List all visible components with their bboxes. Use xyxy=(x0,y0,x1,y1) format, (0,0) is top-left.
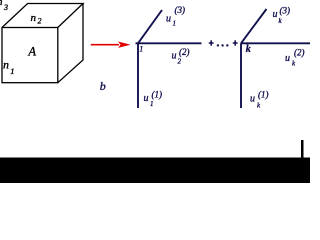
cube top face edges xyxy=(2,4,83,28)
svg-text:(2): (2) xyxy=(294,48,305,58)
svg-text:2: 2 xyxy=(38,17,42,26)
svg-text:n: n xyxy=(31,12,37,24)
wire: left diagonal (port 3) xyxy=(138,10,162,43)
label u1(2) xyxy=(172,47,190,66)
svg-text:A: A xyxy=(27,45,36,59)
svg-text:u: u xyxy=(250,94,255,105)
svg-text:n: n xyxy=(3,58,9,72)
cube right face edges xyxy=(58,4,83,83)
svg-text:u: u xyxy=(166,14,171,25)
cube front face xyxy=(2,28,58,83)
label uk(3) xyxy=(273,6,291,26)
black vertical line bottom-right xyxy=(301,140,304,158)
svg-text:(1): (1) xyxy=(258,90,269,100)
wire: right vertical (port 1) xyxy=(240,43,242,108)
label u1(1) xyxy=(144,90,163,109)
svg-text:b: b xyxy=(100,79,106,93)
svg-text:u: u xyxy=(172,51,177,62)
black bottom strip xyxy=(0,158,310,184)
svg-text:k: k xyxy=(246,44,251,55)
svg-text:(2): (2) xyxy=(179,47,190,57)
svg-text:(3): (3) xyxy=(175,5,186,15)
svg-text:1: 1 xyxy=(150,100,154,108)
label n2 (top face) xyxy=(31,12,42,26)
svg-text:u: u xyxy=(285,53,290,64)
label n3 (cut off at top-left corner) xyxy=(0,0,8,12)
red arrow xyxy=(91,42,131,48)
svg-text:(1): (1) xyxy=(152,90,163,100)
svg-text:3: 3 xyxy=(3,3,8,12)
svg-text:u: u xyxy=(273,9,278,20)
label u1(3) xyxy=(166,5,185,28)
label uk(1) xyxy=(250,90,269,110)
label uk(2) xyxy=(285,48,305,68)
svg-text:(3): (3) xyxy=(280,6,291,16)
wire: left vertical (port 1) xyxy=(137,43,139,108)
wire: left horizontal (port 2) xyxy=(136,42,202,44)
svg-text:1: 1 xyxy=(10,66,14,76)
svg-text:2: 2 xyxy=(178,58,182,66)
svg-text:1: 1 xyxy=(139,45,143,54)
series dots: + ... + xyxy=(209,40,238,46)
label n1 (bottom-left) xyxy=(3,58,15,77)
wire: right horizontal (port 2) xyxy=(241,42,310,44)
wire: right diagonal (port 3) xyxy=(241,9,267,43)
svg-text:1: 1 xyxy=(173,20,177,28)
svg-text:u: u xyxy=(144,93,149,104)
